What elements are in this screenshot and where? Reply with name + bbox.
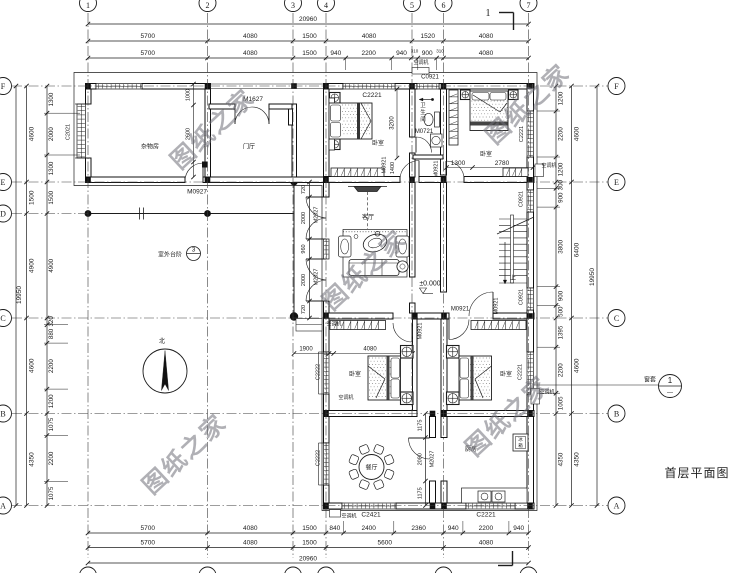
svg-text:4900: 4900 bbox=[48, 258, 55, 272]
svg-text:310: 310 bbox=[411, 49, 419, 54]
svg-text:M2027: M2027 bbox=[314, 269, 320, 286]
svg-text:2200: 2200 bbox=[361, 50, 376, 57]
svg-text:4350: 4350 bbox=[574, 452, 581, 467]
entry recess dims bbox=[193, 84, 195, 177]
left dim chain B bbox=[46, 86, 48, 506]
svg-text:1500: 1500 bbox=[302, 50, 317, 57]
axis bubbles bottom bbox=[80, 567, 97, 573]
bedroom1 dim 3200 bbox=[396, 89, 398, 158]
svg-text:4: 4 bbox=[324, 1, 328, 10]
svg-text:M0927: M0927 bbox=[187, 189, 207, 196]
svg-text:E: E bbox=[1, 178, 6, 187]
door M2027 dining-kitchen bbox=[409, 437, 430, 439]
wardrobe bedroom4 bbox=[471, 321, 526, 330]
svg-text:M0921: M0921 bbox=[382, 157, 388, 174]
svg-text:C2222: C2222 bbox=[316, 450, 322, 466]
top dim row2 bbox=[88, 57, 529, 59]
AC platform bottom left bbox=[330, 510, 341, 518]
svg-text:4350: 4350 bbox=[29, 452, 36, 467]
columns on C bbox=[323, 313, 329, 319]
svg-text:4600: 4600 bbox=[29, 126, 36, 141]
wall living east (axis5, E to C) bbox=[410, 183, 416, 278]
stair break line bbox=[497, 217, 534, 234]
svg-text:A: A bbox=[0, 502, 6, 511]
svg-text:4080: 4080 bbox=[479, 50, 494, 57]
svg-text:5700: 5700 bbox=[141, 33, 156, 40]
window C2222 upper bbox=[324, 352, 330, 394]
svg-text:940: 940 bbox=[330, 50, 341, 57]
svg-text:1400: 1400 bbox=[390, 162, 396, 174]
wall E row east (bedroom south) bbox=[324, 177, 401, 183]
stair stringer bbox=[511, 215, 514, 283]
svg-text:4080: 4080 bbox=[243, 525, 258, 532]
svg-text:M2027: M2027 bbox=[430, 451, 436, 468]
grid axis line 2 bbox=[207, 13, 209, 558]
wall bathroom south bbox=[413, 155, 443, 159]
svg-text:940: 940 bbox=[513, 525, 524, 532]
svg-text:900: 900 bbox=[558, 192, 565, 203]
svg-text:1395: 1395 bbox=[558, 325, 565, 339]
svg-text:900: 900 bbox=[422, 50, 433, 57]
svg-text:卧室: 卧室 bbox=[500, 370, 512, 378]
door M1627 double leaf bbox=[234, 107, 236, 124]
svg-text:C2221: C2221 bbox=[362, 92, 382, 99]
toilet bbox=[435, 112, 440, 127]
svg-text:2200: 2200 bbox=[479, 525, 494, 532]
axis bubbles right bbox=[608, 78, 625, 95]
round stool bbox=[397, 261, 408, 272]
svg-text:门厅: 门厅 bbox=[243, 143, 255, 151]
sofa right armchair bbox=[396, 236, 409, 257]
svg-text:300: 300 bbox=[558, 179, 565, 190]
window C2222 lower bbox=[324, 443, 330, 485]
svg-text:940: 940 bbox=[448, 525, 459, 532]
svg-text:M0921: M0921 bbox=[434, 161, 440, 178]
wall F bedroom1 segment bbox=[324, 84, 344, 90]
window C2221 right wall north bbox=[527, 111, 534, 157]
svg-text:M0721: M0721 bbox=[415, 129, 434, 135]
svg-text:C2221: C2221 bbox=[518, 364, 524, 380]
door M2027 terrace upper bbox=[306, 196, 326, 198]
corridor dim chain 1175/2080/1175 bbox=[425, 414, 427, 506]
grid axis line 5 bbox=[411, 13, 413, 416]
svg-text:3: 3 bbox=[291, 1, 295, 10]
grid axis line 6 bbox=[443, 13, 445, 558]
svg-text:4080: 4080 bbox=[479, 33, 494, 40]
svg-text:2200: 2200 bbox=[558, 363, 565, 377]
bottom dim total 20960 bbox=[88, 562, 529, 564]
door stair hall at C bbox=[492, 292, 494, 316]
terrace edge column dots bbox=[85, 210, 92, 217]
AC platform top (bathroom) bbox=[412, 68, 429, 75]
door M0921 bedroom2 (E wall) bbox=[445, 161, 447, 180]
columns on F bbox=[85, 83, 91, 89]
svg-text:310: 310 bbox=[436, 49, 444, 54]
grid axis line F bbox=[12, 85, 608, 87]
wall bedroom4 west bbox=[441, 319, 447, 411]
svg-text:3800: 3800 bbox=[558, 239, 565, 253]
svg-text:客厅: 客厅 bbox=[362, 213, 374, 221]
svg-text:4600: 4600 bbox=[574, 358, 581, 373]
svg-text:空调机: 空调机 bbox=[341, 513, 356, 520]
svg-text:空调机: 空调机 bbox=[338, 394, 353, 401]
right dim total 19950 bbox=[596, 86, 598, 506]
north arrow bbox=[143, 349, 187, 393]
svg-text:C: C bbox=[0, 314, 5, 323]
AC platform at C terrace bbox=[296, 319, 322, 332]
porch beam lines at F bbox=[211, 83, 327, 85]
grid axis line 4 bbox=[325, 13, 327, 558]
wall B row bbox=[324, 411, 418, 417]
wall living west (axis4, E to C) bbox=[324, 183, 330, 198]
wall axis4 (porch east / bedroom west) bbox=[324, 84, 330, 178]
stair landing line bbox=[499, 282, 527, 284]
window C0921 stair upper bbox=[527, 190, 534, 212]
section mark 1 bottom bbox=[512, 551, 514, 566]
svg-text:1500: 1500 bbox=[302, 525, 317, 532]
window C2421 dining bbox=[342, 503, 396, 509]
svg-text:上: 上 bbox=[510, 274, 516, 282]
svg-text:19950: 19950 bbox=[16, 286, 23, 304]
window C2021 bay bbox=[77, 104, 86, 158]
svg-text:C2221: C2221 bbox=[476, 512, 496, 519]
door right bedroom at C bbox=[448, 320, 450, 340]
svg-text:箱: 箱 bbox=[518, 442, 523, 449]
dining table bbox=[359, 455, 384, 480]
window C2221 right wall south bbox=[527, 352, 534, 394]
svg-text:1300: 1300 bbox=[48, 161, 55, 175]
svg-text:M0921: M0921 bbox=[494, 298, 500, 315]
svg-text:生: 生 bbox=[420, 108, 426, 116]
svg-text:卫: 卫 bbox=[420, 102, 426, 109]
svg-text:20960: 20960 bbox=[299, 556, 317, 563]
AC platform right lower bbox=[531, 389, 540, 405]
grid axis line 7 bbox=[528, 13, 530, 558]
window trim callout bbox=[534, 384, 659, 386]
nightstand bedroom3 lower bbox=[401, 392, 414, 405]
svg-text:空调机: 空调机 bbox=[541, 162, 556, 169]
svg-text:900: 900 bbox=[558, 290, 565, 301]
wall bathroom west (axis5) bbox=[410, 89, 416, 137]
wall F storage-room bbox=[86, 84, 97, 90]
window C2221 bedroom1 bbox=[343, 84, 395, 90]
AC platform right upper bbox=[535, 164, 544, 177]
svg-text:4900: 4900 bbox=[29, 258, 36, 273]
roof eave outline bbox=[74, 73, 537, 511]
bedroom2 door dims bbox=[447, 167, 534, 169]
window C0921 bathroom bbox=[417, 84, 439, 90]
window C0921 stair lower bbox=[527, 288, 534, 310]
sofa main bbox=[349, 260, 399, 276]
svg-text:2000: 2000 bbox=[301, 212, 307, 224]
wall A row bbox=[324, 503, 343, 509]
TV cabinet bbox=[354, 187, 381, 192]
svg-text:F: F bbox=[1, 82, 6, 91]
grid axis line B bbox=[12, 413, 608, 415]
columns on A bbox=[323, 503, 329, 509]
right witness stubs bbox=[537, 110, 560, 112]
svg-text:C2421: C2421 bbox=[361, 512, 381, 519]
svg-text:1900: 1900 bbox=[299, 347, 313, 353]
svg-text:2400: 2400 bbox=[361, 525, 376, 532]
svg-text:1500: 1500 bbox=[29, 190, 36, 205]
kitchen counter bbox=[462, 488, 528, 503]
wall bedroom3 east bbox=[413, 319, 418, 411]
terrace door dim chain bbox=[309, 182, 311, 318]
terrace corner column dot bbox=[290, 312, 298, 320]
wardrobe bedroom2 bbox=[503, 168, 528, 177]
wall stair hall west (axis6, E to C) bbox=[441, 183, 447, 293]
top dim row1 bbox=[88, 40, 529, 42]
svg-text:940: 940 bbox=[396, 50, 407, 57]
wall kitchen west bbox=[441, 417, 447, 438]
svg-text:3200: 3200 bbox=[390, 116, 396, 130]
svg-text:4080: 4080 bbox=[479, 540, 494, 547]
door M0927 leaf and arc bbox=[202, 163, 204, 181]
svg-text:±0.000: ±0.000 bbox=[419, 281, 440, 288]
svg-text:1175: 1175 bbox=[418, 420, 424, 432]
window storage F wall bbox=[96, 84, 142, 90]
terrace column dot at E bbox=[290, 178, 297, 185]
nightstand bedroom3 upper bbox=[401, 346, 414, 359]
svg-text:1300: 1300 bbox=[48, 92, 55, 106]
svg-text:5: 5 bbox=[410, 1, 414, 10]
left witness stubs bbox=[44, 112, 80, 114]
svg-text:M0921: M0921 bbox=[451, 307, 470, 313]
svg-text:1300: 1300 bbox=[451, 160, 466, 167]
svg-text:2200: 2200 bbox=[558, 127, 565, 141]
nightstand bedroom1 upper bbox=[330, 93, 341, 104]
wall C row bbox=[324, 313, 394, 319]
svg-text:餐厅: 餐厅 bbox=[365, 464, 377, 472]
svg-text:6: 6 bbox=[442, 1, 446, 10]
wash basin bbox=[431, 134, 443, 147]
window C2221 kitchen bbox=[466, 503, 515, 509]
svg-text:2000: 2000 bbox=[48, 127, 55, 141]
bed bedroom2 bbox=[470, 91, 508, 131]
door left bedroom at C bbox=[411, 323, 413, 342]
svg-text:C0921: C0921 bbox=[519, 191, 525, 207]
svg-text:2200: 2200 bbox=[48, 359, 55, 373]
bed bedroom3 bbox=[368, 356, 401, 400]
svg-text:4600: 4600 bbox=[29, 358, 36, 373]
svg-text:F: F bbox=[614, 82, 619, 91]
svg-text:1500: 1500 bbox=[302, 33, 317, 40]
svg-text:2: 2 bbox=[206, 1, 210, 10]
svg-text:C0921: C0921 bbox=[421, 75, 439, 81]
bed bedroom4 bbox=[459, 356, 492, 400]
svg-text:2080: 2080 bbox=[418, 453, 424, 465]
svg-text:2780: 2780 bbox=[495, 160, 510, 167]
svg-text:5700: 5700 bbox=[141, 525, 156, 532]
grid axis line A bbox=[12, 505, 608, 507]
axis bubbles top bbox=[80, 0, 97, 12]
svg-text:C0921: C0921 bbox=[519, 289, 525, 305]
svg-text:880: 880 bbox=[48, 328, 55, 339]
svg-text:1: 1 bbox=[486, 8, 491, 19]
wall bathroom east (axis6) bbox=[441, 89, 447, 175]
bed bedroom1 bbox=[329, 98, 335, 150]
svg-text:间: 间 bbox=[420, 115, 426, 123]
svg-text:北: 北 bbox=[159, 337, 165, 345]
svg-text:室外台阶: 室外台阶 bbox=[158, 251, 182, 259]
svg-text:—: — bbox=[667, 390, 673, 396]
door M2027 terrace lower bbox=[306, 258, 326, 260]
columns on B bbox=[323, 411, 329, 417]
wall entry recessed front bbox=[209, 104, 235, 109]
svg-text:C2021: C2021 bbox=[66, 124, 72, 140]
AC dim 1900 bbox=[294, 353, 334, 355]
svg-text:M0921: M0921 bbox=[418, 323, 424, 340]
fridge bbox=[513, 434, 528, 451]
svg-text:720: 720 bbox=[301, 305, 307, 314]
svg-text:卧室: 卧室 bbox=[349, 370, 361, 378]
svg-text:3: 3 bbox=[192, 247, 196, 254]
left dim total 19950 bbox=[15, 86, 17, 506]
svg-text:杂物房: 杂物房 bbox=[141, 143, 159, 151]
wardrobe bedroom1 bbox=[331, 168, 384, 177]
svg-text:1500: 1500 bbox=[302, 540, 317, 547]
svg-text:窗套: 窗套 bbox=[644, 376, 656, 384]
svg-text:840: 840 bbox=[329, 525, 340, 532]
svg-text:5600: 5600 bbox=[378, 540, 393, 547]
svg-text:冰: 冰 bbox=[518, 436, 523, 442]
grid axis line 3 bbox=[292, 13, 294, 558]
svg-text:C2222: C2222 bbox=[316, 364, 322, 380]
nightstand bedroom1 lower bbox=[330, 139, 341, 150]
coffee table oval bbox=[361, 231, 389, 255]
svg-text:4600: 4600 bbox=[574, 126, 581, 141]
floor drain arrow bbox=[420, 99, 432, 101]
wall dining east bbox=[430, 417, 436, 438]
svg-text:4080: 4080 bbox=[243, 50, 258, 57]
svg-text:4080: 4080 bbox=[363, 347, 377, 353]
right dim chain inner bbox=[555, 86, 557, 506]
svg-text:19950: 19950 bbox=[589, 268, 596, 286]
window living west middle bbox=[324, 239, 330, 259]
stair treads bbox=[499, 218, 527, 220]
svg-text:M2027: M2027 bbox=[314, 207, 320, 224]
axis bubbles left bbox=[0, 78, 12, 95]
bedroom3 dim 4080 bbox=[329, 353, 413, 355]
wall right exterior (axis7) bbox=[527, 84, 534, 112]
sofa left armchair bbox=[339, 236, 352, 257]
bottom witness stubs bbox=[343, 521, 345, 533]
terrace edge line D bbox=[88, 213, 294, 215]
svg-text:1075: 1075 bbox=[48, 417, 55, 431]
door M0921 bedroom1 (E wall) bbox=[418, 161, 420, 180]
closet bedroom2 bbox=[449, 90, 458, 145]
svg-text:1: 1 bbox=[668, 376, 673, 385]
bottom dim row2 bbox=[88, 547, 529, 549]
svg-text:4080: 4080 bbox=[362, 33, 377, 40]
terrace joint tick bbox=[139, 208, 141, 220]
svg-text:1200: 1200 bbox=[558, 162, 565, 176]
svg-text:4350: 4350 bbox=[558, 452, 565, 466]
svg-text:卧室: 卧室 bbox=[372, 139, 384, 147]
svg-text:D: D bbox=[0, 210, 6, 219]
top witness stubs bbox=[345, 58, 347, 70]
TV centerline dashed bbox=[367, 192, 369, 229]
wall pier entry NE corner bbox=[289, 109, 293, 125]
terrace east edge line bbox=[293, 182, 295, 316]
nightstand bedroom4 lower bbox=[447, 392, 460, 405]
wall axis3 entry east bbox=[292, 104, 297, 177]
svg-text:1175: 1175 bbox=[418, 487, 424, 499]
svg-text:首层平面图: 首层平面图 bbox=[664, 466, 729, 480]
right dim chain middle bbox=[571, 86, 573, 506]
grid axis line E bbox=[12, 181, 608, 183]
svg-text:5700: 5700 bbox=[141, 50, 156, 57]
grid axis line 1 bbox=[87, 13, 89, 558]
top dim total 20960 bbox=[88, 23, 529, 25]
svg-text:1075: 1075 bbox=[48, 486, 55, 500]
svg-text:1200: 1200 bbox=[48, 394, 55, 408]
svg-text:2360: 2360 bbox=[411, 525, 426, 532]
svg-text:20960: 20960 bbox=[299, 16, 317, 23]
svg-text:1000: 1000 bbox=[186, 89, 192, 101]
svg-text:卧室: 卧室 bbox=[480, 150, 492, 158]
wall axis2 interior bbox=[205, 89, 211, 177]
wall E row west wing bbox=[86, 177, 186, 183]
svg-text:1: 1 bbox=[86, 1, 90, 10]
grid axis line C bbox=[12, 317, 608, 319]
wall lower west (axis4, C to A) bbox=[324, 318, 330, 352]
svg-text:720: 720 bbox=[301, 185, 307, 194]
wall F northeast bedroom bbox=[443, 84, 534, 90]
svg-text:6400: 6400 bbox=[574, 242, 581, 257]
svg-text:1520: 1520 bbox=[421, 33, 436, 40]
carpet dotted edge bbox=[343, 230, 407, 278]
svg-text:C: C bbox=[614, 314, 619, 323]
svg-text:B: B bbox=[0, 410, 5, 419]
svg-text:A: A bbox=[614, 502, 620, 511]
svg-text:7: 7 bbox=[527, 1, 531, 10]
grid axis line D bbox=[12, 213, 88, 215]
svg-text:1500: 1500 bbox=[48, 190, 55, 204]
svg-text:空调机: 空调机 bbox=[326, 321, 341, 328]
svg-text:960: 960 bbox=[301, 244, 307, 253]
plant small circle bbox=[375, 231, 380, 236]
svg-text:2000: 2000 bbox=[301, 274, 307, 286]
svg-text:4080: 4080 bbox=[243, 33, 258, 40]
kitchen stove bbox=[478, 491, 491, 502]
svg-text:B: B bbox=[614, 410, 619, 419]
bottom dim row1 bbox=[88, 532, 529, 534]
svg-text:E: E bbox=[614, 178, 619, 187]
nightstand bedroom4 upper bbox=[447, 346, 460, 359]
svg-text:1005: 1005 bbox=[558, 396, 565, 410]
nightstand bedroom2 left bbox=[461, 90, 471, 100]
stair up arrow bbox=[504, 242, 506, 282]
wardrobe bedroom3 bbox=[330, 321, 386, 330]
left dim chain A bbox=[26, 86, 28, 506]
svg-text:500: 500 bbox=[558, 306, 565, 317]
svg-text:2200: 2200 bbox=[48, 451, 55, 465]
svg-text:5700: 5700 bbox=[141, 540, 156, 547]
columns on E bbox=[85, 177, 91, 183]
svg-text:4080: 4080 bbox=[243, 540, 258, 547]
wall left exterior (axis1) bbox=[86, 84, 92, 105]
nightstand bedroom2 right bbox=[509, 90, 519, 100]
bathroom door M0721 bbox=[415, 137, 417, 153]
